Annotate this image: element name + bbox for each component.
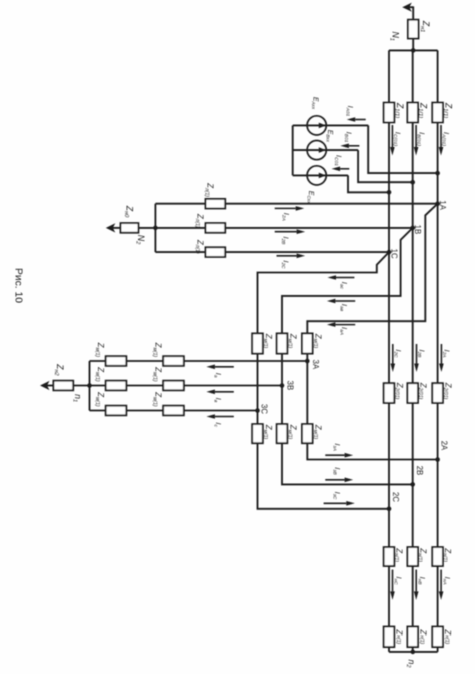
label IнC: [393, 576, 404, 585]
current arrow I_B0: [340, 144, 359, 149]
resistor Zм2(1) branch А: [302, 424, 313, 443]
label 2A: [440, 441, 449, 451]
label Zн(1) B: [417, 547, 428, 562]
label col2 В: [152, 366, 163, 382]
node 2C: [387, 507, 392, 512]
terminal arrow at N1 neutral: [402, 3, 413, 12]
current arrow IнC: [390, 570, 395, 600]
wire E_Cxx to bus C: [348, 175, 389, 192]
N1 bus: [389, 49, 438, 51]
junction N1: [411, 48, 416, 53]
EMF source E_Cxx: [293, 166, 348, 185]
line to node 1В: [155, 227, 412, 229]
bus C middle segment: [388, 252, 390, 383]
resistor Zм1(1) col1 С: [106, 406, 127, 416]
current arrow IB(01): [414, 125, 419, 156]
node 1В: [410, 226, 415, 231]
bus A top segment: [437, 50, 439, 102]
bus C top segment: [388, 50, 390, 102]
svg-text:1С: 1С: [389, 249, 398, 259]
label col2 С: [152, 391, 163, 407]
current arrow I_3C: [324, 501, 355, 506]
current arrow I2C: [277, 254, 306, 259]
node N1: [389, 31, 401, 40]
label Z'н(1) C: [395, 628, 404, 644]
label I_c: [212, 422, 223, 427]
label Z1(1) B: [417, 102, 429, 118]
caption Ris. 10: [13, 268, 24, 303]
junction E_A on bus A: [435, 171, 440, 176]
junction n2: [411, 650, 416, 655]
label E_Cxx: [306, 191, 314, 204]
branch wire from 1B: [282, 228, 413, 334]
resistor Zн1: [408, 20, 419, 39]
current arrow I_a: [206, 365, 233, 370]
label col1 С: [94, 391, 105, 407]
label I_B0: [343, 132, 354, 143]
bus A mid segment: [437, 122, 439, 203]
label Zм2(1) В: [287, 424, 298, 440]
label Z'н(1) A: [443, 628, 452, 644]
node 1А: [435, 201, 440, 206]
label IC(01): [392, 132, 403, 147]
label 1В: [413, 225, 422, 235]
bus C lower segment: [388, 403, 390, 547]
label col1 А: [94, 342, 105, 358]
branch wire from 1A: [307, 204, 437, 334]
bus A lower segment: [437, 403, 439, 547]
label I_3B: [331, 467, 342, 475]
label I2A: [281, 213, 292, 221]
line to node 1А: [155, 203, 437, 205]
terminal arrow at n1 neutral: [40, 381, 53, 390]
current arrow I2B bus: [414, 344, 419, 372]
label I2B: [280, 237, 291, 246]
wire to node 2A: [307, 443, 437, 459]
svg-text:3А: 3А: [311, 360, 320, 370]
label 1С: [389, 249, 398, 259]
resistor Zн(1) bus B: [407, 547, 418, 566]
node 3A: [305, 359, 310, 364]
label Z1(1) C: [393, 102, 405, 118]
resistor Zл(1) phase А: [206, 199, 226, 209]
resistor Z2(01) bus A: [432, 383, 443, 403]
bus B mid segment: [412, 122, 414, 227]
resistor Zм(1) branch С: [252, 333, 263, 353]
wire E_Axx to bus A: [368, 125, 437, 173]
terminal arrow at N2 neutral: [106, 223, 121, 232]
EMF source E_Bxx: [293, 141, 358, 160]
current arrow I2B: [275, 229, 305, 234]
resistor Zм2(1) col2 А: [163, 356, 184, 366]
current arrow I_A0: [347, 117, 366, 122]
label bus I2C: [392, 349, 403, 358]
resistor Z'н(1) bus A: [432, 627, 443, 648]
resistor Zн(1) bus A: [432, 547, 443, 566]
junction E_B on bus B: [410, 180, 415, 185]
wire to node 2C: [258, 443, 390, 509]
resistor Z1(1) phase C: [384, 103, 395, 123]
label Zл(1) А: [204, 182, 215, 197]
bus C to n2 bus: [388, 647, 390, 652]
label Z'н(1) B: [418, 628, 427, 644]
label IнB: [416, 577, 427, 586]
bus A to n2 bus: [437, 647, 439, 652]
branch B vertical to 3B: [281, 354, 283, 425]
resistor Zн0: [121, 223, 139, 233]
current arrow IнB: [414, 570, 419, 600]
resistor Zм(1) branch А: [302, 333, 313, 353]
resistor Zм1(1) col1 А: [106, 356, 127, 366]
node n2: [405, 659, 417, 668]
EMF source E_Axx: [293, 116, 369, 135]
junction n1: [87, 383, 92, 388]
resistor Zм1(1) col1 В: [106, 381, 127, 391]
label col1 В: [94, 366, 105, 382]
line to node 1С: [155, 251, 389, 253]
wire Zн1 to N1 bus: [412, 39, 414, 51]
label I_A0: [344, 106, 355, 117]
resistor Zн2: [53, 381, 73, 391]
label I_ac: [338, 282, 349, 290]
label Zн(1) C: [393, 547, 404, 562]
line 3A: [90, 360, 308, 362]
resistor Zм(1) branch В: [277, 333, 288, 353]
current arrow I_c: [206, 414, 233, 419]
current arrow I2A bus: [439, 344, 444, 372]
N2 star connector: [154, 204, 156, 252]
label IB(01): [416, 132, 427, 146]
node 3B: [280, 383, 285, 388]
label Zн(1) A: [442, 547, 453, 562]
label Z2(01) C: [393, 382, 404, 400]
svg-text:2С: 2С: [391, 492, 400, 502]
label I_C0: [333, 155, 344, 166]
svg-text:Рис. 10: Рис. 10: [13, 268, 24, 303]
bus B bottom segment: [412, 566, 414, 627]
label I_3C: [331, 492, 342, 500]
current arrow IA(01): [439, 125, 444, 156]
current arrow I_C0: [332, 167, 350, 172]
label 3A: [311, 360, 320, 370]
resistor Zм2(1) branch В: [277, 424, 288, 443]
current arrow I_3A: [325, 453, 353, 458]
svg-text:1В: 1В: [413, 225, 422, 235]
current arrow I_ab: [327, 299, 355, 304]
line 3B: [90, 385, 283, 387]
label I_ab: [338, 304, 349, 312]
svg-text:2В: 2В: [415, 466, 424, 476]
label 3B: [285, 381, 294, 391]
bus C bottom segment: [388, 566, 390, 627]
current arrow I_aA: [327, 322, 355, 327]
label IA(01): [441, 132, 452, 146]
current arrow I2C bus: [391, 344, 396, 372]
label 2B: [415, 466, 424, 476]
resistor Zм2(1) col2 С: [163, 406, 184, 416]
label I_3A: [331, 443, 342, 451]
node 2B: [410, 482, 415, 487]
resistor Z1(1) phase B: [407, 103, 418, 123]
label Zн0: [123, 205, 135, 218]
bus B middle segment: [412, 228, 414, 383]
svg-text:3С: 3С: [259, 404, 268, 414]
label col2 А: [152, 342, 163, 358]
current arrow IC(01): [390, 125, 395, 156]
label 2C: [391, 492, 400, 502]
n2 bottom bus: [389, 651, 438, 653]
label Zм(1) С: [262, 333, 273, 349]
branch A vertical to 3A: [306, 354, 308, 425]
wire Zн0 to N2: [138, 227, 155, 229]
label Zн2: [53, 363, 65, 376]
branch wire from 1C: [258, 252, 390, 333]
bus B top segment: [412, 50, 414, 102]
node N2: [134, 235, 146, 245]
resistor Z2(01) bus B: [407, 383, 418, 403]
resistor Z'н(1) bus B: [407, 627, 418, 648]
label bus I2B: [416, 350, 427, 359]
bus A bottom segment: [437, 566, 439, 627]
current arrow IнA: [439, 570, 444, 600]
label 3C: [259, 404, 268, 414]
resistor Zл(1) phase В: [206, 223, 226, 233]
label Zм2(1) А: [312, 424, 323, 440]
resistor Zн(1) bus C: [384, 547, 395, 566]
resistor Zл(1) phase С: [206, 247, 226, 257]
current arrow I_b: [206, 390, 233, 395]
label 1А: [438, 200, 447, 210]
current arrow I_ac: [328, 275, 355, 280]
node 1С: [387, 250, 392, 255]
label I2C: [280, 260, 291, 269]
resistor Z1(1) phase A: [432, 103, 443, 123]
label Z2(01) A: [442, 382, 453, 400]
label Z2(01) B: [417, 382, 428, 400]
label Zм2(1) С: [262, 424, 273, 440]
label I_aA: [338, 327, 349, 335]
junction E_C on bus C: [387, 190, 392, 195]
label E_Bxx: [325, 130, 333, 143]
node n1: [71, 394, 83, 402]
label Z1(1) A: [442, 102, 454, 118]
wire to node 2B: [282, 443, 413, 484]
junction N2: [153, 226, 158, 231]
label Zм(1) А: [312, 333, 323, 349]
n1 star connector: [89, 361, 91, 411]
label Zл(1) С: [194, 239, 205, 254]
label bus I2A: [441, 350, 452, 358]
wire neutral to Zn1: [412, 6, 414, 19]
label Zл(1) В: [194, 213, 205, 228]
bus C mid segment: [388, 122, 390, 252]
label I_a: [212, 373, 223, 378]
svg-text:1А: 1А: [438, 200, 447, 210]
label Zм(1) В: [287, 333, 298, 349]
current arrow I_3B: [325, 478, 353, 483]
bus B lower segment: [412, 403, 414, 547]
resistor Zм2(1) branch С: [252, 424, 263, 443]
svg-text:2А: 2А: [440, 441, 449, 451]
branch C vertical to 3C: [257, 354, 259, 425]
node 3C: [255, 408, 260, 413]
resistor Zм2(1) col2 В: [163, 381, 184, 391]
label IнA: [441, 577, 452, 585]
svg-text:3В: 3В: [285, 381, 294, 391]
label I_b: [212, 398, 223, 403]
EMF star connector: [292, 125, 294, 175]
bus A middle segment: [437, 204, 439, 384]
label E_Axx: [311, 97, 319, 110]
line 3C: [90, 410, 258, 412]
current arrow I2A: [275, 206, 305, 211]
wire Zн2 to n1: [73, 385, 89, 387]
wire E_Bxx to bus B: [358, 150, 413, 182]
label Zн1: [419, 20, 431, 33]
resistor Z2(01) bus C: [384, 383, 395, 403]
node 2A: [435, 457, 440, 462]
bus B to n2 bus: [412, 647, 414, 652]
resistor Z'н(1) bus C: [384, 627, 395, 648]
